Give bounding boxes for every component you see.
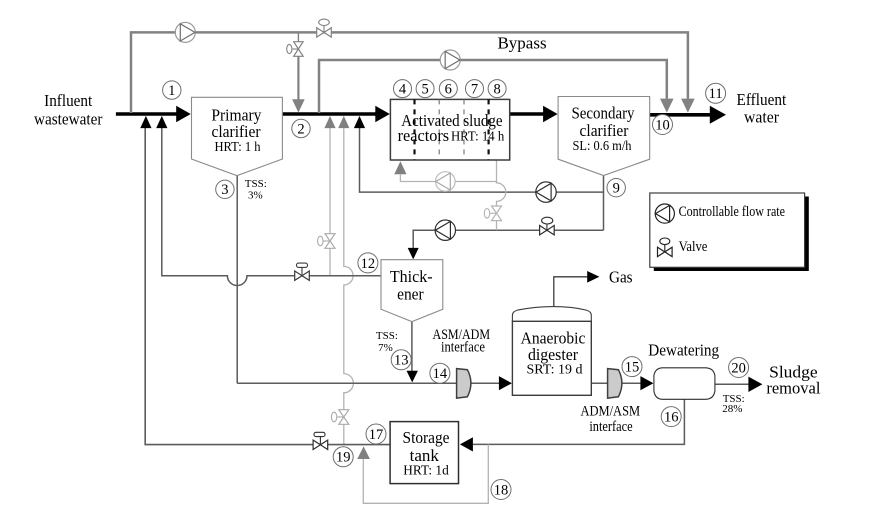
svg-text:3: 3 — [221, 182, 228, 198]
node 16 — [661, 407, 681, 427]
svg-text:3%: 3% — [248, 190, 263, 202]
wire recycle drop with hop over RAS line — [497, 182, 506, 207]
label TSS: 3% — [245, 178, 267, 202]
anaerobic digester dome — [512, 307, 591, 322]
label TSS: 28% — [722, 393, 744, 415]
node 3 — [216, 180, 234, 198]
reactor divider dashed 3 — [463, 99, 465, 160]
svg-text:19: 19 — [336, 450, 351, 466]
wire bypass line 2 (ASR bypass) — [319, 60, 667, 113]
node 18 — [491, 480, 511, 500]
svg-text:10: 10 — [655, 117, 670, 133]
svg-text:HRT: 1d: HRT: 1d — [403, 464, 449, 479]
valve V6 on wastage line — [540, 217, 555, 235]
wire thickener underflow — [411, 322, 413, 371]
svg-text:18: 18 — [494, 482, 509, 498]
node 9 — [607, 179, 625, 197]
node 11 — [706, 83, 726, 103]
svg-text:Thick-: Thick- — [390, 267, 433, 286]
wire secondary clarifier underflow vertical — [603, 176, 605, 231]
svg-text:interface: interface — [441, 340, 485, 356]
ASM/ADM interface block — [457, 369, 471, 399]
wire gas line — [554, 277, 588, 308]
svg-text:removal: removal — [766, 379, 820, 398]
svg-text:Dewatering: Dewatering — [648, 341, 719, 360]
arrowhead sludge removal — [748, 377, 762, 392]
svg-text:ener: ener — [397, 285, 424, 304]
node 8 — [488, 80, 506, 98]
arrow up light line 1 into main line — [324, 116, 335, 128]
label Effluent water — [737, 90, 787, 127]
valve V7 on light line 2 — [331, 410, 348, 425]
arrow down bypass 2 onto effluent line — [660, 99, 674, 113]
pump P4 return activated sludge — [536, 182, 556, 202]
label Storage tank HRT: 1d — [403, 428, 450, 479]
wire dewatering reject return line — [473, 399, 685, 444]
node 17 — [366, 424, 386, 444]
svg-text:8: 8 — [493, 82, 500, 98]
svg-text:12: 12 — [361, 256, 376, 272]
arrowhead gas — [587, 271, 599, 283]
arrowhead into primary clarifier — [176, 106, 191, 122]
wire wastage line — [413, 230, 603, 248]
node 5 — [416, 80, 434, 98]
arrowhead into secondary clarifier — [543, 106, 558, 122]
svg-text:11: 11 — [709, 86, 723, 102]
label Influent wastewater — [34, 91, 103, 128]
wire light line 1 (main to thickener overflow) — [329, 126, 331, 234]
dewatering unit — [654, 368, 715, 400]
wire primary bypass valve drop line — [297, 32, 299, 41]
wire bypass line 1 (top) — [131, 32, 688, 113]
svg-text:14: 14 — [433, 366, 448, 382]
node 7 — [466, 80, 484, 98]
node 13 — [391, 350, 411, 370]
node 10 — [653, 115, 673, 135]
label Secondary clarifier SL: 0.6 m/h — [571, 104, 635, 155]
pump P3 internal recycle (light) — [436, 172, 456, 192]
node 12 — [358, 253, 378, 273]
wire storage tank bypass (node 18 loop) — [363, 444, 488, 503]
node 6 — [439, 80, 457, 98]
label ASM/ADM interface — [433, 327, 491, 356]
wire digester feed line — [237, 382, 499, 384]
svg-text:7: 7 — [471, 82, 478, 98]
arrow down onto main line at node 2 — [292, 99, 305, 112]
arrow up internal recycle into ASR — [394, 161, 406, 174]
svg-text:1: 1 — [168, 83, 175, 99]
primary clarifier vessel — [192, 97, 283, 175]
legend box — [650, 193, 805, 267]
svg-text:2: 2 — [297, 121, 304, 137]
svg-text:13: 13 — [394, 353, 409, 369]
wire sludge removal line — [715, 383, 749, 385]
svg-text:20: 20 — [731, 360, 746, 376]
svg-text:Valve: Valve — [679, 239, 708, 255]
node 15 — [622, 357, 642, 377]
svg-text:15: 15 — [625, 360, 640, 376]
svg-text:Effluent: Effluent — [737, 90, 787, 109]
svg-text:tank: tank — [410, 446, 440, 465]
svg-text:clarifier: clarifier — [580, 121, 629, 140]
legend pump symbol — [655, 204, 674, 223]
wire primary sludge line — [236, 176, 238, 384]
pump P2 ASR bypass — [440, 50, 460, 70]
svg-text:Secondary: Secondary — [571, 104, 635, 123]
svg-text:Storage: Storage — [403, 428, 450, 447]
reactor divider dashed 4 — [488, 99, 490, 160]
wire storage tank outlet line — [145, 122, 390, 445]
reactor divider dashed 1 — [413, 99, 415, 160]
label TSS: 7% — [376, 330, 398, 354]
ADM/ASM interface block — [608, 369, 622, 399]
svg-text:4: 4 — [399, 82, 407, 98]
wire internal recycle from ASR bottom — [400, 160, 496, 182]
node 4 — [394, 80, 412, 98]
wire main line primary to ASR — [282, 112, 376, 116]
label Anaerobic digester SRT: 19 d — [521, 329, 586, 378]
arrow down thickener underflow onto feed line — [407, 371, 418, 383]
svg-text:clarifier: clarifier — [211, 122, 260, 141]
svg-text:water: water — [744, 108, 779, 127]
svg-text:TSS:: TSS: — [376, 330, 398, 342]
arrowhead left into storage tank — [460, 437, 473, 451]
arrowhead into activated sludge reactors — [375, 106, 390, 122]
svg-text:Controllable flow rate: Controllable flow rate — [679, 204, 785, 220]
node 20 — [729, 358, 749, 378]
svg-text:17: 17 — [369, 427, 384, 443]
secondary clarifier vessel — [558, 97, 650, 176]
pump P5 wastage — [435, 220, 455, 240]
storage tank box — [390, 422, 458, 484]
arrow down bypass 1 onto effluent line — [681, 99, 695, 113]
svg-text:TSS:: TSS: — [245, 178, 267, 190]
svg-text:SL: 0.6 m/h: SL: 0.6 m/h — [573, 139, 632, 154]
svg-text:Bypass: Bypass — [497, 34, 546, 53]
wire recycle drop below valve to wastage line — [496, 220, 498, 230]
svg-text:digester: digester — [528, 345, 578, 364]
svg-text:reactors: reactors — [398, 126, 450, 145]
arrowhead effluent water — [710, 106, 726, 124]
reactor divider dashed 2 — [438, 99, 440, 160]
svg-text:5: 5 — [421, 82, 428, 98]
arrow up thickener overflow into main line — [156, 116, 167, 128]
wire valve drop to main line — [297, 57, 299, 100]
legend shadow — [654, 197, 809, 272]
svg-text:HRT: 1 h: HRT: 1 h — [215, 140, 261, 155]
anaerobic digester body — [512, 321, 591, 395]
svg-text:7%: 7% — [378, 342, 393, 354]
svg-text:9: 9 — [613, 181, 620, 197]
wire effluent line — [650, 113, 711, 117]
arrowhead into anaerobic digester — [499, 376, 512, 390]
wire digester to dewatering — [591, 382, 640, 384]
arrowhead into dewatering — [640, 376, 653, 390]
svg-text:HRT: 14 h: HRT: 14 h — [451, 129, 504, 144]
node 19 — [333, 447, 353, 467]
node 2 — [292, 119, 310, 137]
node 1 — [163, 81, 181, 99]
wire light line 2 below valve to storage outlet line — [343, 424, 345, 444]
svg-text:wastewater: wastewater — [34, 109, 103, 128]
svg-text:SRT: 19 d: SRT: 19 d — [527, 363, 583, 378]
valve V4 on thickener overflow line — [295, 263, 310, 280]
pump P1 influent bypass (top line) — [175, 22, 195, 42]
arrow up light line 2 into main line — [338, 116, 349, 128]
wire main influent line — [116, 112, 177, 116]
arrow up RAS into main line — [354, 116, 365, 128]
valve V3 on light line 1 — [318, 234, 335, 249]
label Activated sludge reactors HRT: 14 h — [398, 111, 505, 145]
valve V5 on recycle drop (light) — [484, 206, 501, 221]
svg-text:ADM/ASM: ADM/ASM — [580, 404, 640, 420]
valve V1 on bypass line 1 — [317, 19, 332, 37]
wire light line 2 (main to storage outlet) with hops — [344, 126, 354, 410]
activated sludge reactors box — [390, 99, 509, 160]
wire thickener overflow return with dip under primary sludge line — [162, 122, 381, 286]
thickener vessel — [381, 260, 443, 322]
node 14 — [430, 363, 450, 383]
svg-text:interface: interface — [589, 419, 633, 435]
wire main line ASR to secondary clarifier — [510, 112, 544, 116]
wire light line 1 below valve — [329, 248, 331, 276]
label Primary clarifier HRT: 1 h — [211, 105, 262, 155]
arrow down wastage into thickener — [408, 248, 419, 260]
label Thick-ener — [390, 267, 433, 304]
svg-text:28%: 28% — [722, 403, 742, 415]
legend valve symbol — [658, 238, 673, 257]
label ADM/ASM interface — [580, 404, 640, 436]
wire return activated sludge line — [360, 122, 604, 193]
svg-text:16: 16 — [664, 410, 679, 426]
arrow up storage bypass into outlet line — [357, 446, 370, 459]
svg-text:Gas: Gas — [609, 268, 633, 287]
label Sludge removal — [766, 363, 820, 398]
valve V2 on primary bypass drop — [287, 42, 303, 57]
svg-text:Influent: Influent — [44, 91, 92, 110]
valve V8 on storage outlet line — [313, 432, 328, 449]
arrow up storage return into main line — [140, 116, 151, 128]
svg-text:6: 6 — [445, 82, 452, 98]
